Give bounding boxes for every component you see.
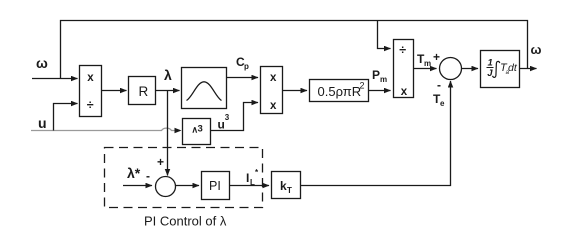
svg-text:*: *: [255, 168, 259, 177]
svg-text:÷: ÷: [87, 98, 94, 112]
svg-text:λ*: λ*: [127, 165, 141, 181]
svg-text:÷: ÷: [399, 43, 406, 57]
svg-text:3: 3: [198, 124, 203, 135]
svg-text:u: u: [38, 115, 47, 131]
svg-text:2: 2: [360, 81, 365, 91]
svg-text:P: P: [372, 68, 380, 82]
svg-text:x: x: [270, 72, 277, 84]
svg-text:u: u: [218, 118, 225, 132]
svg-text:m: m: [424, 59, 431, 68]
svg-text:J: J: [487, 68, 493, 79]
svg-text:3: 3: [225, 113, 230, 122]
svg-text:T: T: [287, 186, 292, 195]
svg-text:x: x: [270, 100, 277, 112]
svg-text:+: +: [433, 50, 440, 64]
svg-text:k: k: [280, 179, 287, 193]
svg-text:ω: ω: [36, 55, 48, 71]
svg-text:1: 1: [488, 58, 493, 69]
svg-text:+: +: [157, 155, 164, 169]
svg-text:PI: PI: [209, 179, 221, 193]
svg-text:I: I: [246, 171, 249, 185]
svg-text:ω: ω: [531, 42, 542, 57]
svg-text:p: p: [244, 62, 249, 71]
svg-text:-: -: [146, 169, 150, 183]
svg-text:PI Control of λ: PI Control of λ: [144, 214, 227, 229]
svg-text:λ: λ: [164, 67, 172, 83]
svg-text:0.5ρπR: 0.5ρπR: [318, 84, 362, 99]
svg-text:-: -: [437, 78, 441, 92]
svg-text:x: x: [401, 86, 408, 98]
svg-text:m: m: [380, 75, 387, 84]
svg-text:R: R: [139, 84, 149, 99]
svg-text:x: x: [87, 72, 94, 84]
svg-text:e: e: [440, 99, 445, 108]
svg-text:dt: dt: [508, 62, 518, 74]
svg-text:L: L: [250, 178, 255, 187]
